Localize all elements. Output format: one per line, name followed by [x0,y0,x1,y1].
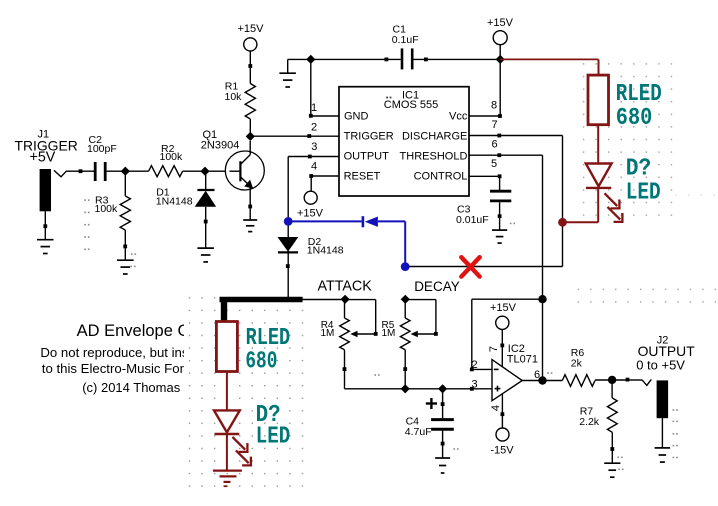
wire marker D2 lower [286,264,290,268]
red X mark [461,257,479,276]
svg-text:3: 3 [311,141,317,153]
op-amp output wire [522,380,562,382]
svg-text:7: 7 [488,346,500,352]
resistor R3 [120,171,130,260]
label 555 pin numbers (left) [311,102,317,172]
wire to ATTACK node [303,299,346,301]
ground J2 [655,448,671,462]
svg-text:TL071: TL071 [507,353,538,365]
svg-text:1N4148: 1N4148 [156,196,193,208]
node Q1 collector junction [246,132,255,141]
wire R6 to J2 [595,378,642,382]
label IC1 CMOS 555 [384,90,438,112]
ground R7 [604,463,620,477]
ground C3 [492,230,507,243]
ground LED (red) [213,471,242,487]
power +15V (RESET) [297,191,324,219]
red wire LED bottom to ground [226,434,228,470]
svg-text:0 to +5V: 0 to +5V [636,357,685,372]
svg-text:10k: 10k [225,91,243,103]
label J1 TRIGGER +5V [15,129,78,166]
grid dot pairs near R3 ground [130,253,136,267]
label R3 100k [95,195,119,216]
power +15V (R1) [238,23,265,51]
red wire +15V to RLED [500,59,598,75]
capacitor C2 [95,162,105,181]
svg-text:2k: 2k [571,357,583,369]
wire +15V to R1 [248,51,252,84]
node threshold/feedback junction [538,295,546,303]
wire C3 to ground [498,202,502,230]
label 555 pin names (right) [400,111,468,183]
diode D2 [278,237,299,252]
resistor R6 [562,375,595,387]
resistor R7 [607,380,617,463]
svg-text:DECAY: DECAY [414,279,460,294]
svg-text:ATTACK: ATTACK [318,279,373,295]
svg-text:680: 680 [616,105,653,132]
svg-text:6: 6 [491,139,497,151]
grid dot pairs near R7 ground [618,457,624,471]
svg-text:-15V: -15V [490,444,514,456]
svg-text:LED: LED [626,180,661,207]
wire C1 left [311,58,401,62]
wire pin 6 threshold net [469,153,543,380]
svg-text:1M: 1M [321,328,335,339]
svg-text:GND: GND [344,111,369,123]
label C3 0.01uF [456,204,489,226]
wire pin 4 to +15V [309,174,339,191]
power +15V (Vcc) [487,17,514,45]
node ATTACK junction [341,295,350,304]
label C1 0.1uF [392,24,419,46]
node discharge/LED junction (red) [558,218,567,227]
node R6/R7 junction [608,376,616,384]
svg-text:TRIGGER: TRIGGER [344,131,394,143]
svg-text:2.2k: 2.2k [579,416,600,428]
label D? LED (top, teal) [626,155,661,206]
svg-text:4: 4 [490,405,502,411]
pasted editor-grid overlay (bottom-left) [184,288,308,491]
wire pin 3 output net [288,155,339,298]
wire +15V to pin 8 [469,45,502,118]
ground J1 [37,240,54,254]
op IC1 555 package outline [339,87,469,196]
svg-text:+15V: +15V [487,17,514,29]
ground C4 [435,458,450,473]
svg-text:LED: LED [256,423,291,450]
label R5 1M [382,320,396,339]
wire R1 to collector node [249,119,251,137]
label R6 2k [571,347,585,369]
ground pin 1 (555 GND) [279,73,296,87]
feedback wire (pin2 to threshold) [472,299,543,369]
svg-text:OUTPUT: OUTPUT [344,151,390,163]
editor grid dots (top-right region) [576,60,677,218]
wire collector node to pin 2 [250,134,339,138]
op-amp pin 2 stub [470,368,492,372]
node Vcc junction [496,55,505,64]
label op-amp pin 2 [471,359,477,371]
capacitor C4 (electrolytic) [426,389,454,458]
svg-text:2: 2 [311,122,317,134]
svg-text:+15V: +15V [490,302,517,314]
connector J2 (jack body) [657,380,669,418]
capacitor C3 [490,191,511,201]
svg-text:4.7uF: 4.7uF [405,426,432,438]
svg-text:Vcc: Vcc [449,111,468,123]
label 555 pin numbers (right) [491,100,498,170]
label op-amp pin 3 [471,378,477,390]
resistor R2 [149,166,183,177]
node op-amp output junction [538,376,546,384]
label R1 10k [225,81,243,104]
grid dot pairs near R3 [84,199,89,250]
node C2/R3 junction [121,167,130,176]
op-amp U2 TL071 [492,360,522,401]
label 555 pin names (left) [344,111,394,183]
wire R2 to Q1 base [183,170,240,172]
grid dot pair between pots [374,374,379,376]
red wire LED to discharge node [563,188,599,222]
label R4 1M [321,320,335,339]
text annotation AD Envelope Generator (partially covered) [40,322,252,395]
wire J1 to C2 (with hook) [54,169,94,177]
svg-text:7: 7 [491,119,497,131]
svg-text:5: 5 [491,158,497,170]
pot R5 (DECAY) [400,299,437,389]
thick wire (output to RLED/attack) [220,297,303,322]
svg-text:CONTROL: CONTROL [414,171,468,183]
svg-text:RLED: RLED [616,81,662,108]
capacitor C1 [402,48,412,69]
svg-text:CMOS 555: CMOS 555 [384,99,438,111]
label R7 2.2k [579,406,600,428]
svg-text:THRESHOLD: THRESHOLD [400,151,468,163]
wire bottom node to op-amp + [345,387,493,391]
blue diode [363,216,378,227]
diode D1 [195,171,216,248]
label D1 1N4148 [156,186,193,207]
label IC2 TL071 [507,343,538,365]
grid dot pair near op-amp output [547,372,552,374]
node pin1/C1 junction [306,55,315,64]
svg-text:+5V: +5V [30,150,56,166]
svg-text:100pF: 100pF [87,143,117,155]
svg-text:100k: 100k [160,151,184,163]
grid dot pair near C3 [510,223,515,225]
label op-amp pin 6 [534,369,540,381]
wire pin 1 to ground [288,59,339,117]
op-amp -15V [490,394,514,457]
label DECAY [414,279,460,294]
wire hook to J2 [642,379,651,385]
faint grid row [675,194,714,195]
svg-text:1M: 1M [382,328,396,339]
LED D? top [586,164,623,222]
node blue junction (decay line) [401,262,410,271]
wire marker R3 [123,245,127,249]
resistor R1 [245,84,255,120]
svg-text:+15V: +15V [297,207,324,219]
red wire RLED to LED [597,125,599,164]
label D? LED (bottom, teal) [256,402,291,450]
node C4 junction [438,384,447,393]
wire pin 5 to C3 [469,174,502,190]
node R2/D1 junction [200,167,209,176]
label RLED 680 (bottom, teal) [245,325,290,376]
ground Q1 [243,220,257,232]
node R5/C4 junction [401,384,410,393]
LED D? bottom [214,410,251,465]
wire J1 to ground [43,211,47,239]
svg-text:DISCHARGE: DISCHARGE [402,131,467,143]
svg-text:680: 680 [245,348,277,375]
wire marker Q1 emitter [248,205,252,209]
svg-text:4: 4 [311,160,317,172]
transistor Q1 [225,141,264,220]
label R2 100k [160,143,184,163]
svg-text:100k: 100k [95,203,119,215]
svg-text:RESET: RESET [344,171,381,183]
red wire RLED bottom to LED [226,372,228,411]
label Q1 2N3904 [201,129,240,151]
grid dot pairs near J2 [673,409,678,458]
label RLED 680 (top, teal) [616,81,662,132]
grid dot pair near C4 ground [453,448,458,450]
node DECAY junction [401,295,410,304]
wire C2 to R2 [107,170,149,172]
svg-text:D?: D? [626,155,652,182]
svg-text:+15V: +15V [238,23,265,35]
ground D1 [197,248,214,262]
svg-text:6: 6 [534,369,540,381]
label D2 1N4148 [307,236,344,257]
editor grid dots (right middle strip) [574,285,718,306]
wire J2 to ground [661,418,663,448]
pot R4 (ATTACK) [340,299,378,389]
label J2 OUTPUT 0 to +5V [636,334,695,372]
connector J1 (jack body) [40,169,51,211]
op-amp +15V [488,302,517,367]
wire C1 right [414,58,501,62]
svg-text:1: 1 [311,102,317,114]
svg-text:3: 3 [471,378,477,390]
svg-text:8: 8 [491,100,497,112]
label C2 100pF [87,134,117,155]
resistor RLED top (box) [588,75,609,125]
ground R3 [117,260,134,274]
blue wire output node to decay [288,221,405,266]
svg-text:0.1uF: 0.1uF [392,34,419,46]
svg-text:1N4148: 1N4148 [307,245,344,257]
svg-text:2N3904: 2N3904 [201,139,240,151]
svg-text:0.01uF: 0.01uF [456,214,489,226]
resistor RLED bottom (box) [216,322,237,372]
label ATTACK [318,279,373,295]
node blue junction (output line) [284,217,293,226]
label C4 4.7uF [405,416,432,439]
wire pin 7 discharge net [405,134,562,267]
